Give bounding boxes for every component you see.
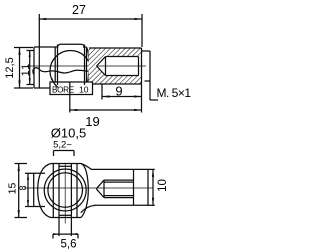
svg-text:19: 19 — [85, 114, 99, 129]
dim 9 left extension — [101, 85, 103, 100]
dim 27 line — [39, 18, 142, 20]
dim 19 left extension from ball center — [69, 82, 71, 113]
sleeve bore top — [106, 56, 139, 58]
dim 12,5 line — [19, 48, 21, 89]
bottom view centerline — [24, 187, 154, 189]
dim 12,5 bottom arrow — [18, 81, 20, 89]
thread cone — [96, 180, 104, 198]
sleeve bore bottom — [106, 75, 139, 77]
svg-text:15: 15 — [6, 183, 18, 195]
dim 5,6 extensions (groove lines extended) — [58, 218, 60, 237]
svg-text:10: 10 — [79, 84, 89, 94]
svg-text:Ø10,5: Ø10,5 — [51, 126, 86, 141]
thread lines bottom — [104, 195, 134, 197]
clip end rectangle left — [34, 173, 45, 206]
sleeve outer bottom — [89, 83, 142, 85]
sleeve side inner cap line — [133, 169, 135, 205]
dim 8 extensions — [25, 172, 34, 174]
groove bottom line bottom — [59, 214, 71, 216]
sleeve bore end wall — [138, 57, 140, 76]
dim 5,6 arrows (outside) — [53, 233, 59, 235]
thread leader bottom tick — [150, 99, 158, 101]
sleeve side view top — [91, 168, 148, 170]
housing right face double line — [86, 47, 88, 88]
sleeve outer top — [89, 47, 142, 49]
dim 11 line — [29, 51, 31, 85]
clip groove lines — [58, 164, 60, 218]
sleeve side right face — [147, 169, 149, 205]
dim 11 extensions — [27, 50, 34, 52]
dim 15 arrows — [18, 164, 20, 172]
housing top edge — [34, 46, 58, 48]
thread leader top tick — [142, 50, 151, 52]
dim 12,5 top extension — [14, 47, 33, 49]
sleeve cone start wall — [105, 57, 107, 76]
boss dome — [58, 44, 85, 47]
housing left face — [33, 47, 35, 88]
dim 9 right extension (sleeve face continued) — [141, 84, 143, 113]
neck outer left — [54, 47, 56, 88]
neck line stubs into box — [57, 82, 59, 85]
front view top flat — [51, 163, 81, 165]
sleeve side view bottom — [94, 204, 148, 206]
svg-text:M. 5×1: M. 5×1 — [157, 86, 192, 100]
svg-text:5,2~: 5,2~ — [53, 140, 72, 151]
housing bottom edge — [34, 87, 87, 89]
vertical centerline of front view — [64, 164, 66, 224]
svg-text:10: 10 — [157, 179, 169, 192]
svg-text:12,5: 12,5 — [4, 57, 16, 78]
neck silhouette right — [84, 45, 86, 89]
dim 11 bottom arrow — [29, 78, 31, 85]
socket bore circle — [44, 169, 86, 211]
sleeve hatched section — [89, 48, 142, 84]
dim 5,6 line — [53, 233, 78, 235]
thread leader mid tick — [145, 80, 151, 82]
dim 12,5 top arrow — [18, 48, 20, 56]
front view bottom flat — [51, 217, 81, 219]
dim 19 line — [70, 109, 142, 111]
spring clip wavy wire — [33, 68, 89, 75]
thread lines top — [104, 179, 134, 181]
ball arc over box corner — [52, 78, 58, 87]
svg-text:8: 8 — [18, 185, 28, 190]
svg-text:9: 9 — [115, 84, 122, 99]
dim 5,2 end ticks — [53, 151, 55, 157]
dim 15 line — [18, 164, 20, 218]
thread cone wall — [103, 180, 105, 198]
sleeve right face — [141, 48, 143, 84]
dim 11 top arrow — [29, 51, 31, 58]
top view centerline — [27, 65, 146, 67]
dim 10 arrows — [152, 169, 154, 177]
dim 19 arrows — [70, 109, 78, 111]
flange wavy left line — [87, 48, 90, 84]
dim 10 line — [152, 169, 154, 205]
dim 8 line — [27, 173, 29, 206]
dim 9 arrows — [102, 95, 110, 97]
ball circle — [50, 51, 91, 92]
dim 27 left arrow — [39, 18, 47, 20]
BORE 10 label box — [50, 82, 93, 95]
housing to sleeve taper bottom — [81, 205, 95, 212]
thread leader vertical — [149, 51, 151, 100]
dim 15 extensions — [15, 163, 28, 165]
outer bulge left arc — [38, 164, 51, 218]
outer bulge right arc — [81, 164, 88, 218]
ball circle front — [48, 173, 83, 208]
dim 27 right arrow — [135, 18, 143, 20]
svg-text:BORE: BORE — [52, 85, 75, 94]
groove bottom line top — [59, 165, 71, 167]
neck silhouette left — [57, 45, 59, 89]
neck outer lines — [52, 164, 54, 218]
housing to sleeve taper top — [81, 164, 92, 170]
dim 12,5 bottom extension — [14, 87, 33, 89]
cavity back edge / dim 27 left extension — [38, 14, 40, 88]
dim 8 arrows — [27, 173, 29, 180]
dim 10 extensions — [148, 168, 155, 170]
svg-text:27: 27 — [72, 3, 86, 17]
dim 5,6 end ticks — [52, 234, 54, 238]
dim 27 right extension line — [141, 14, 143, 47]
sleeve drill cone — [97, 57, 106, 76]
svg-text:5,6: 5,6 — [61, 239, 77, 250]
dim 5,2 line — [54, 150, 75, 152]
dim 9 line — [102, 96, 142, 98]
